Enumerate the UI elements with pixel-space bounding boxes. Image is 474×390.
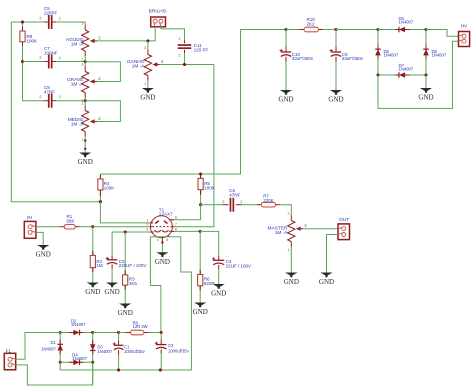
wire MEDIO bottom to ground: [84, 137, 86, 153]
resistor R1: [60, 224, 80, 229]
potentiometer AGUDO: [81, 22, 101, 62]
wire heater under tube: [150, 236, 180, 238]
wire C11 to wiper row: [184, 53, 186, 64]
wire AGUDO wiper to GANHO node: [97, 40, 148, 42]
wire C10 to ground: [285, 62, 287, 90]
connector F1: [4, 353, 15, 370]
wire D3 node down: [92, 362, 94, 385]
label R1: [67, 214, 75, 223]
wire MEDIO wiper loop: [85, 101, 120, 122]
wire R9 top stub: [22, 22, 24, 27]
wire rail to C1: [93, 332, 119, 334]
wire rail to HV pin1: [426, 30, 459, 37]
label C8: [44, 85, 55, 94]
label R5: [204, 181, 215, 190]
label R8: [133, 320, 148, 329]
resistor R3: [123, 270, 128, 289]
wire R8 to C2: [148, 332, 161, 334]
diode D1 1N4007: [57, 333, 63, 363]
resistor R8: [126, 330, 148, 335]
label R2: [96, 259, 103, 268]
junction D8 bottom: [424, 73, 427, 76]
svg-text:220UF / 100V: 220UF / 100V: [119, 263, 147, 268]
svg-text:1M -A: 1M -A: [132, 63, 146, 69]
junction GRAVE top: [84, 60, 87, 63]
wire C5 to AGUDO top: [56, 21, 85, 23]
svg-text:1N4007: 1N4007: [71, 322, 86, 327]
svg-text:22UF / 100V: 22UF / 100V: [226, 264, 251, 269]
wire C1 bottom: [118, 355, 120, 370]
wire C2 top: [160, 333, 162, 340]
R4 pin bottom: [99, 190, 101, 196]
label D7: [399, 63, 414, 72]
resistor R4: [98, 175, 103, 195]
label D6: [384, 49, 399, 58]
wire cathode B to R6: [199, 231, 201, 270]
wire rail to D5: [336, 29, 378, 31]
label D3: [97, 345, 112, 354]
svg-text:1M -A: 1M -A: [71, 42, 85, 48]
svg-text:1000uf/35v: 1000uf/35v: [168, 349, 190, 354]
C4 pin bottom: [218, 265, 220, 270]
C9 pin bottom: [335, 57, 337, 62]
capacitor C6: [230, 198, 235, 212]
wire C7 row to C8 row: [22, 62, 24, 101]
R9 pin top: [22, 27, 24, 32]
C8 pin right: [53, 100, 57, 102]
svg-text:1000uf/35v: 1000uf/35v: [124, 349, 146, 354]
label R9: [27, 34, 38, 43]
svg-text:D1: D1: [50, 340, 56, 345]
svg-text:1K5: 1K5: [129, 281, 138, 286]
capacitor C2: [155, 342, 167, 349]
wire F1 pin1 to AC top rail: [16, 333, 55, 360]
svg-text:GND: GND: [118, 309, 133, 317]
junction plate A: [99, 200, 102, 203]
wire MASTER wiper to OUT: [303, 228, 338, 230]
wire OUT pin2 to ground: [327, 235, 339, 273]
C5 pin right: [53, 21, 57, 23]
C10 pin top: [285, 47, 287, 53]
wire MEDIO top stub: [84, 101, 86, 106]
wire cathode A: [112, 231, 150, 233]
label C11: [194, 43, 209, 52]
wire F1 pin2 to AC bottom: [16, 362, 93, 385]
svg-text:GND: GND: [78, 158, 93, 166]
wire AGUDO top stub: [84, 22, 86, 25]
C10 pin bottom: [285, 57, 287, 62]
wire GRAVE top stub: [84, 62, 86, 67]
C2 pin bottom: [160, 350, 162, 354]
junction cathode B: [199, 230, 202, 233]
svg-text:GND: GND: [328, 96, 343, 104]
ground MASTER: [284, 273, 299, 287]
R9 pin bottom: [22, 42, 24, 47]
junction D6 top: [376, 28, 379, 31]
C6 pin left: [223, 204, 229, 206]
svg-text:BRILHO: BRILHO: [149, 9, 167, 15]
label C6: [229, 188, 240, 197]
wire R9 to C7 row: [22, 46, 24, 61]
svg-text:12AX7: 12AX7: [159, 212, 173, 217]
wire plate B elbow: [173, 205, 201, 220]
ground C10: [278, 90, 293, 104]
svg-text:100K: 100K: [204, 186, 215, 191]
svg-text:1N4007: 1N4007: [399, 20, 414, 25]
label MEDIO: [68, 117, 85, 128]
wire D8 to ground: [425, 75, 427, 88]
resistor R5: [198, 174, 203, 194]
label GANHO: [127, 59, 145, 70]
svg-text:GND: GND: [105, 288, 120, 296]
diode D8 1N4007: [423, 30, 429, 76]
svg-text:GND: GND: [85, 288, 100, 296]
svg-text:1N4007: 1N4007: [97, 349, 112, 354]
junction D8 top: [424, 28, 427, 31]
wire IN pin2 to ground: [36, 232, 43, 245]
svg-text:1N4007: 1N4007: [432, 52, 447, 57]
wire GRAVE bottom to C8 node: [84, 98, 86, 101]
svg-text:47NF: 47NF: [44, 90, 55, 95]
capacitor C4: [212, 257, 224, 264]
svg-text:IN: IN: [27, 215, 32, 221]
svg-text:1M -A: 1M -A: [71, 121, 85, 127]
wire MASTER bottom to ground: [290, 247, 292, 273]
wire C4 to ground: [218, 269, 220, 284]
svg-text:1N4007: 1N4007: [41, 346, 56, 351]
label MASTER: [268, 225, 289, 236]
wire R10 right: [323, 29, 336, 31]
svg-text:3: 3: [146, 228, 148, 232]
potentiometer MEDIO: [81, 102, 101, 142]
connector IN: [24, 221, 36, 238]
svg-text:7: 7: [175, 223, 177, 227]
wire to R3: [124, 232, 126, 270]
wire BRILHO pin1 to GANHO node: [148, 27, 155, 41]
svg-text:1N4007: 1N4007: [384, 52, 399, 57]
svg-text:6: 6: [175, 216, 177, 220]
svg-text:3: 3: [81, 63, 83, 67]
C3 pin top: [111, 255, 113, 259]
label IN: [27, 215, 32, 221]
svg-text:1: 1: [144, 82, 146, 86]
connector BRILHO: [151, 17, 166, 27]
connector OUT: [338, 224, 350, 240]
junction D6 bottom: [376, 73, 379, 76]
capacitor C5: [48, 15, 53, 29]
label R3: [129, 277, 138, 286]
wire R7 to MASTER: [280, 205, 291, 216]
junction C1 bottom: [117, 368, 120, 371]
label C5: [44, 6, 58, 15]
wire R2 to ground: [92, 272, 94, 282]
junction D3 top: [91, 331, 94, 334]
connector HV: [459, 32, 470, 47]
wire plate B to C6: [201, 204, 223, 206]
label D5: [399, 16, 414, 25]
svg-text:1: 1: [81, 138, 83, 142]
svg-text:4: 4: [157, 238, 159, 242]
wire C10 top: [285, 30, 287, 47]
label R10: [307, 17, 316, 26]
junction R9 top: [21, 20, 24, 23]
ground GANHO: [140, 88, 155, 102]
label C7: [44, 46, 58, 55]
svg-text:GND: GND: [193, 308, 208, 316]
svg-text:1: 1: [81, 58, 83, 62]
label AGUDO: [66, 37, 84, 48]
svg-text:33uF/350v: 33uF/350v: [292, 56, 314, 61]
svg-text:F1: F1: [6, 349, 12, 354]
C1 pin top: [118, 341, 120, 346]
C1 pin bottom: [118, 350, 120, 355]
svg-text:GND: GND: [284, 278, 299, 286]
potentiometer MASTER: [288, 212, 308, 252]
label C2: [168, 343, 190, 354]
capacitor C10: [280, 49, 292, 56]
wire D1 node down: [59, 362, 61, 370]
resistor R9: [20, 27, 25, 47]
svg-text:47NF: 47NF: [229, 192, 240, 197]
svg-text:GND: GND: [140, 94, 155, 102]
wire C3 to ground: [111, 269, 113, 283]
svg-text:820R: 820R: [204, 281, 216, 286]
R3 pin bottom: [124, 285, 126, 290]
R6 pin top: [199, 270, 201, 275]
diode D6 1N4007: [375, 30, 381, 76]
junction C10 top: [284, 28, 287, 31]
ground R6: [193, 303, 208, 317]
capacitor C9: [330, 49, 342, 56]
ground C3: [105, 283, 120, 297]
wire to C3: [111, 232, 113, 255]
capacitor C3: [106, 257, 118, 264]
C6 pin right: [236, 204, 242, 206]
junction D1 bottom: [59, 361, 62, 364]
label GRAVE: [67, 77, 84, 88]
label R6: [204, 277, 216, 286]
C8 pin left: [44, 100, 48, 102]
C11 pin top: [184, 40, 186, 43]
wire C9 top: [335, 30, 337, 47]
capacitor C11: [178, 44, 192, 49]
resistor R7: [257, 202, 280, 207]
C9 pin top: [335, 47, 337, 53]
C7 pin right: [53, 61, 57, 63]
diode D4 1N4007: [60, 360, 92, 366]
label R7: [263, 193, 274, 202]
ground MEDIO: [78, 153, 93, 167]
wire R4 to plate node: [99, 196, 101, 202]
svg-text:120 PF: 120 PF: [194, 47, 209, 52]
R2 pin top: [92, 251, 94, 256]
capacitor C8: [48, 94, 53, 108]
wire R4 top stub: [99, 174, 101, 179]
svg-text:220K: 220K: [263, 198, 274, 203]
svg-text:3: 3: [288, 212, 290, 216]
svg-text:3: 3: [81, 102, 83, 106]
wire tube pin9 to ground: [161, 243, 163, 253]
wire grid A to tube: [93, 226, 150, 228]
svg-text:1N4007: 1N4007: [72, 356, 87, 361]
svg-text:1N4007: 1N4007: [399, 67, 414, 72]
junction MEDIO top: [84, 99, 87, 102]
label D8: [432, 49, 447, 58]
C11 pin bottom: [184, 50, 186, 53]
potentiometer GRAVE: [81, 63, 101, 103]
junction C2 top: [160, 331, 163, 334]
junction R9/C7: [21, 60, 24, 63]
wire grid node to R2: [92, 227, 94, 251]
triode T1 12AX7: [146, 216, 177, 243]
label C9: [342, 52, 364, 61]
wire AGUDO bottom to C7 node: [84, 56, 86, 62]
label R4: [104, 181, 115, 190]
wire plate A elbow: [100, 202, 149, 223]
resistor R2: [90, 251, 95, 272]
label HV: [461, 23, 468, 29]
svg-text:5: 5: [166, 238, 168, 242]
svg-text:HV: HV: [461, 23, 468, 29]
wire R6 to ground: [199, 290, 201, 302]
svg-text:8: 8: [175, 227, 177, 231]
wire C9 to ground: [335, 62, 337, 90]
diode D5 1N4007: [378, 27, 426, 33]
wire R3 to ground: [124, 290, 126, 304]
svg-text:GND: GND: [278, 96, 293, 104]
wire R10 left: [286, 29, 300, 31]
wire left rail down to R4 node: [11, 22, 100, 202]
svg-text:1M: 1M: [96, 263, 103, 268]
wire cathode B: [173, 230, 200, 232]
junction C2 bottom: [159, 368, 162, 371]
label D1: [41, 340, 56, 351]
junction R5 top: [199, 172, 202, 175]
resistor R6: [198, 270, 203, 290]
wire heater right down: [160, 237, 191, 370]
R3 pin top: [124, 270, 126, 275]
junction grid A: [91, 225, 94, 228]
label D4: [72, 353, 87, 362]
wire GANHO top stub: [147, 41, 149, 50]
junction D3 bottom: [91, 361, 94, 364]
wire BRILHO pin2 to C11: [161, 27, 185, 40]
capacitor C1: [113, 342, 124, 349]
label F1: [6, 349, 12, 354]
label D2: [71, 318, 86, 327]
junction D1 top: [59, 331, 62, 334]
svg-text:100NF: 100NF: [44, 50, 58, 55]
C7 pin left: [44, 61, 48, 63]
ground T1: [155, 252, 170, 266]
ground R2: [85, 283, 100, 297]
ground IN: [36, 245, 51, 259]
wire C8 to MEDIO node: [56, 100, 85, 102]
wire GANHO wiper to grid node: [160, 64, 214, 66]
wire to D2: [55, 332, 60, 334]
svg-text:GND: GND: [155, 258, 170, 266]
svg-text:33uF/350v: 33uF/350v: [342, 56, 364, 61]
C5 pin left: [44, 21, 48, 23]
wire DC minus rail: [60, 369, 160, 371]
svg-text:3: 3: [81, 22, 83, 26]
junction GANHO top: [146, 39, 149, 42]
svg-text:220PF: 220PF: [44, 11, 58, 16]
svg-text:GND: GND: [36, 251, 51, 259]
R5 pin top: [200, 174, 202, 178]
svg-text:3: 3: [144, 46, 146, 50]
diode D3 1N4007: [90, 333, 96, 363]
resistor R10: [300, 27, 324, 32]
wire cathode B to C4: [200, 231, 219, 255]
label C10: [292, 52, 314, 61]
wire heater left down: [150, 237, 161, 333]
wire bridge return to HV pin2: [378, 41, 459, 108]
wire B+ down to plate bus: [100, 30, 240, 175]
label BRILHO: [149, 9, 167, 15]
svg-text:100K: 100K: [27, 39, 38, 44]
svg-text:2: 2: [146, 223, 148, 227]
R2 pin bottom: [92, 268, 94, 273]
label OUT: [339, 217, 349, 223]
C3 pin bottom: [111, 264, 113, 269]
svg-text:1M -A: 1M -A: [71, 82, 85, 88]
label C3: [119, 259, 147, 268]
C4 pin top: [218, 256, 220, 260]
svg-text:1M -A: 1M -A: [275, 230, 289, 236]
ground OUT: [319, 273, 334, 287]
capacitor C7: [48, 55, 53, 69]
wire C8 left: [23, 100, 45, 102]
wire B+ rail 1: [241, 29, 287, 31]
diode D7 1N4007: [378, 72, 426, 78]
junction C1 top: [117, 331, 120, 334]
wire GRAVE wiper loop: [85, 62, 120, 82]
R5 pin bottom: [200, 190, 202, 195]
svg-text:2K2: 2K2: [307, 21, 316, 26]
wire IN pin1 to R1: [36, 226, 60, 228]
R6 pin bottom: [199, 286, 201, 291]
svg-text:OUT: OUT: [339, 217, 349, 223]
wire C1 top: [118, 333, 120, 341]
wire C7 to GRAVE node: [56, 61, 85, 63]
wire R1 to grid A node: [80, 226, 93, 228]
junction C9 top: [334, 28, 337, 31]
label C4: [226, 259, 251, 268]
wire C2 bottom: [160, 354, 162, 371]
junction cathode A: [124, 230, 127, 233]
diode D2 1N4007: [60, 330, 92, 336]
ground C9: [328, 90, 343, 104]
wire C7 left: [23, 61, 45, 63]
potentiometer GANHO: [144, 46, 164, 86]
wire GANHO bottom to ground: [147, 81, 149, 89]
svg-text:68K: 68K: [67, 219, 75, 224]
ground R3: [118, 304, 133, 318]
junction plate B / C6: [199, 203, 202, 206]
ground bridge: [418, 88, 433, 102]
wire C5 left to left rail: [11, 21, 44, 23]
ground C4: [211, 284, 226, 298]
svg-text:GND: GND: [211, 290, 226, 298]
svg-text:GND: GND: [319, 278, 334, 286]
svg-text:GND: GND: [418, 94, 433, 102]
label C1: [124, 345, 146, 354]
svg-text:100K: 100K: [104, 186, 115, 191]
C2 pin top: [160, 339, 162, 344]
svg-text:12R 2W: 12R 2W: [133, 324, 148, 329]
wire grid B long vertical: [174, 65, 214, 227]
